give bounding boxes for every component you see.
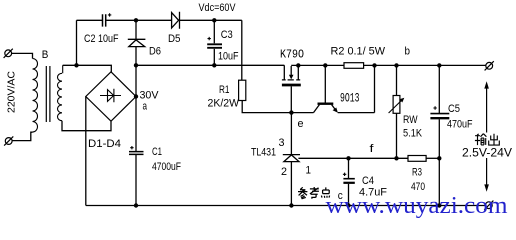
C4 plus polarity mark xyxy=(343,173,346,176)
svg-text:5.1K: 5.1K xyxy=(403,128,423,140)
wire AC top terminal to primary xyxy=(12,53,33,58)
RW wiper arrow xyxy=(389,100,403,113)
white mask under output labels xyxy=(460,133,514,159)
wire bridge minus corner down to ground bus xyxy=(85,97,87,206)
terminal output plus xyxy=(485,61,494,70)
mosfet K790 drain stub with arrow xyxy=(288,66,294,80)
transformer B secondary winding xyxy=(57,65,62,120)
wire vertical x136: D6 to bridge + corner to C1 xyxy=(135,47,137,151)
watermark www.wuyazi.com xyxy=(326,193,508,219)
node junction dot C1 at ground bus xyxy=(134,203,138,207)
label 470uF of C5 xyxy=(447,119,473,131)
capacitor C1 xyxy=(129,152,144,155)
svg-text:B: B xyxy=(42,49,49,61)
svg-text:D6: D6 xyxy=(149,46,161,58)
label D6 xyxy=(149,46,161,58)
svg-text:Vdc=60V: Vdc=60V xyxy=(199,2,237,14)
svg-text:470uF: 470uF xyxy=(447,119,473,131)
node junction dot C3 top xyxy=(212,18,216,22)
capacitor C2 xyxy=(103,14,106,26)
wire TL431 anode to ground bus xyxy=(290,162,292,206)
output range arrow line xyxy=(486,84,488,189)
label c xyxy=(338,190,343,202)
label R1 xyxy=(219,84,230,96)
9013 emitter arrowhead xyxy=(333,108,338,113)
label pin 2 xyxy=(281,166,287,178)
ground bus bottom wire xyxy=(86,205,486,207)
wire output bus from R2 to output terminal xyxy=(364,64,486,66)
label B transformer xyxy=(42,49,49,61)
node junction dot RW top xyxy=(394,63,398,67)
wire C1 bottom to ground bus xyxy=(135,155,137,206)
wire C3 top lead xyxy=(213,20,215,43)
TL431 shunt regulator symbol xyxy=(283,155,300,162)
label 9013 xyxy=(340,92,360,106)
label D5 xyxy=(168,33,181,45)
node junction dot at C3 bottom xyxy=(212,63,216,67)
transistor 9013 base bar xyxy=(318,102,334,104)
resistor R3 xyxy=(408,156,426,162)
label pin 3 xyxy=(279,137,285,149)
wire R1 top lead from top bus xyxy=(241,20,243,80)
node junction dot top bus at D6 xyxy=(134,18,138,22)
terminal AC top xyxy=(4,49,13,58)
label C4 xyxy=(362,175,374,187)
wire node a bus: D6 bottom to K790 gate xyxy=(136,64,284,66)
label b xyxy=(405,46,411,58)
wire C5 branch vertical top xyxy=(438,65,440,113)
mosfet K790 second stub xyxy=(296,65,300,80)
svg-text:R1: R1 xyxy=(219,84,230,96)
label C5 xyxy=(448,103,460,115)
svg-text:RW: RW xyxy=(403,114,418,126)
label 2K/2W xyxy=(208,98,240,110)
capacitor C4 xyxy=(343,178,354,180)
label R2 0.1/ 5W xyxy=(331,46,386,58)
diode D6 xyxy=(128,39,146,46)
svg-text:3: 3 xyxy=(279,137,285,149)
svg-text:4700uF: 4700uF xyxy=(152,161,181,173)
mosfet K790 gate plate xyxy=(282,65,286,80)
node junction dot C4 at ground xyxy=(346,203,350,207)
svg-text:K79O: K79O xyxy=(280,48,304,62)
wire output bus from K790 to R2 xyxy=(291,64,344,66)
wire transformer secondary top to bridge top corner xyxy=(63,65,112,72)
label TL431 xyxy=(251,147,276,159)
svg-text:D5: D5 xyxy=(168,33,181,45)
svg-text:D1-D4: D1-D4 xyxy=(88,138,121,150)
label pin 1 xyxy=(306,165,312,177)
wire emitter to R2-right vertical xyxy=(338,65,375,112)
svg-text:2K/2W: 2K/2W xyxy=(208,98,240,110)
transformer core lines xyxy=(46,66,50,122)
node junction dot at D6 line / node-a wire xyxy=(134,63,138,67)
svg-text:C5: C5 xyxy=(448,103,460,115)
node junction dot TL431 at ground xyxy=(289,203,293,207)
svg-text:470: 470 xyxy=(411,181,425,193)
node junction dot C5 top xyxy=(437,63,441,67)
svg-text:b: b xyxy=(405,46,411,58)
svg-text:C3: C3 xyxy=(221,29,233,41)
terminal output minus xyxy=(484,201,493,210)
svg-text:R2 0.1/ 5W: R2 0.1/ 5W xyxy=(331,46,386,58)
label a xyxy=(143,101,148,113)
label 10uF of C3 xyxy=(218,51,239,63)
wire C4 bottom to ground bus xyxy=(348,184,350,206)
9013 emitter lead with arrow xyxy=(332,105,336,111)
wire R3 right to C5 branch xyxy=(426,157,439,159)
label 2.5V-24V xyxy=(462,146,512,160)
wire top bus left of C2 xyxy=(77,19,103,21)
label 220V/AC rotated xyxy=(6,71,18,113)
label 4700uF xyxy=(152,161,181,173)
9013 collector lead xyxy=(314,105,320,113)
svg-text:www.wuyazi.com: www.wuyazi.com xyxy=(326,193,508,219)
resistor R2 xyxy=(344,63,364,69)
svg-text:f: f xyxy=(370,143,375,155)
label 4.7uF xyxy=(359,187,387,199)
bridge rectifier D1-D4 diamond xyxy=(86,72,136,121)
label Vdc=60V xyxy=(199,2,237,14)
node junction dot R2 right xyxy=(372,63,376,67)
hanzi 出 of 输出 xyxy=(489,134,500,145)
svg-text:C4: C4 xyxy=(362,175,374,187)
label R3 xyxy=(412,167,422,179)
svg-text:10uF: 10uF xyxy=(218,51,239,63)
mosfet K790 channel bar xyxy=(282,84,301,87)
C3 plus polarity mark xyxy=(208,37,211,40)
label C1 xyxy=(152,146,162,158)
transformer B primary winding xyxy=(33,59,38,133)
resistor R1 xyxy=(239,80,246,100)
svg-text:TL431: TL431 xyxy=(251,147,276,159)
hanzi 点 of 参考点 xyxy=(321,187,329,197)
wire top bus C2 to D5 xyxy=(106,19,171,21)
label C3 xyxy=(221,29,233,41)
svg-text:R3: R3 xyxy=(412,167,422,179)
output arrow head down xyxy=(484,184,489,191)
wire vertical D6 top lead from top bus xyxy=(135,20,137,39)
node junction dot R3 right xyxy=(437,156,441,160)
svg-text:2: 2 xyxy=(281,166,287,178)
capacitor C3 xyxy=(207,44,222,48)
label 5.1K xyxy=(403,128,423,140)
node junction dot RW bottom / R3 left xyxy=(394,156,398,160)
C2 plus polarity mark xyxy=(108,13,111,16)
label 30V node a xyxy=(140,90,160,102)
label D1-D4 xyxy=(88,138,121,150)
node junction dot e (K790 source) xyxy=(289,110,293,114)
svg-text:C2 10uF: C2 10uF xyxy=(84,33,119,45)
wire R1 bottom to e node xyxy=(242,101,313,113)
svg-text:e: e xyxy=(298,118,304,130)
hanzi 输 of 输出 xyxy=(475,134,487,145)
wire 9013 base lead xyxy=(324,65,326,102)
node junction dot C4 top xyxy=(346,156,350,160)
C1 plus polarity mark xyxy=(130,146,133,149)
C5 plus polarity mark xyxy=(433,106,436,109)
label RW xyxy=(403,114,418,126)
output arrow head up xyxy=(484,81,489,88)
node junction dot bridge + output (node a) xyxy=(134,94,138,98)
label e xyxy=(298,118,304,130)
wire C5 bottom through R3 node to ground bus xyxy=(438,119,440,205)
hanzi 考 of 参考点 xyxy=(310,187,319,199)
label 470 xyxy=(411,181,425,193)
wire TL431 cathode lead from e node xyxy=(290,113,292,154)
label C2 10uF xyxy=(84,33,119,45)
wire C3 bottom lead xyxy=(213,49,215,66)
wire RW top lead xyxy=(396,65,398,95)
wire primary bottom to AC bottom terminal xyxy=(12,132,32,140)
svg-text:C1: C1 xyxy=(152,146,162,158)
K790 arrowhead down xyxy=(289,75,294,80)
wire top bus D5 to R1 drop xyxy=(180,19,242,21)
svg-text:2.5V-24V: 2.5V-24V xyxy=(462,146,512,160)
svg-text:a: a xyxy=(143,101,148,113)
node junction dot 9013 base branch xyxy=(323,63,327,67)
wire C4 top lead xyxy=(348,158,350,178)
svg-text:1: 1 xyxy=(306,165,312,177)
wire K790 source down to e wire xyxy=(290,86,292,112)
bridge internal diode symbol xyxy=(100,89,121,103)
wire transformer secondary bottom to bridge bottom corner xyxy=(62,121,111,131)
node junction dot C5 branch at ground xyxy=(437,203,441,207)
svg-text:9O13: 9O13 xyxy=(340,92,360,106)
label K790 xyxy=(280,48,304,62)
diode D5 xyxy=(172,12,180,29)
wire C2 left lead down to transformer secondary xyxy=(76,20,78,65)
hanzi 参 of 参考点 xyxy=(298,187,307,199)
wire RW bottom lead to f wire xyxy=(396,113,398,158)
node junction at C2/secondary xyxy=(74,63,78,67)
capacitor C5 xyxy=(430,113,449,115)
potentiometer RW box xyxy=(393,96,400,114)
node junction dot K790 top xyxy=(296,63,300,67)
label f xyxy=(370,143,375,155)
wire f: TL431 ref to R3 xyxy=(298,157,408,159)
terminal AC bottom xyxy=(4,136,13,145)
svg-text:220V/AC: 220V/AC xyxy=(6,71,18,113)
